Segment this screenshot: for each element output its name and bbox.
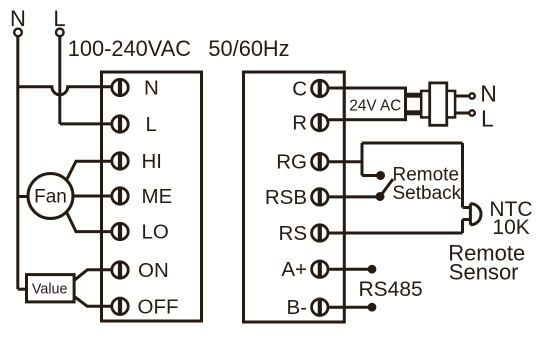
terminal TB1-HI — [112, 152, 128, 171]
svg-text:100-240VAC: 100-240VAC — [68, 36, 191, 61]
svg-text:B-: B- — [287, 296, 308, 319]
terminal TB2-R — [312, 113, 328, 132]
terminal N input circle — [14, 29, 22, 37]
svg-text:LO: LO — [142, 221, 169, 244]
mains N pin circle — [469, 93, 474, 98]
wire L vertical drop — [58, 37, 61, 124]
wire N vertical drop — [16, 37, 19, 87]
wire RG vertical branch — [361, 143, 364, 176]
plug right bracket — [447, 91, 455, 118]
wire value to ON — [74, 270, 111, 281]
svg-text:N: N — [144, 77, 159, 100]
sensor RT1 thermistor bulb — [470, 204, 481, 225]
svg-text:OFF: OFF — [138, 295, 179, 318]
wire stub to fan — [18, 195, 29, 198]
wire plug to L pin — [455, 112, 469, 115]
wire sensor bottom prong — [463, 218, 471, 221]
terminal TB1-L — [112, 115, 128, 134]
svg-text:L: L — [481, 106, 494, 132]
switch S1 fixed contact dot — [376, 171, 385, 180]
terminal TB2-C — [312, 79, 328, 98]
wire B- stub — [329, 306, 370, 309]
wire fan to ME — [73, 195, 111, 198]
switch S1 lever — [380, 179, 393, 197]
terminal TB1-N — [112, 78, 128, 97]
node B- dot — [368, 303, 377, 312]
wire into value box — [18, 288, 27, 291]
wire value to OFF — [74, 296, 111, 306]
svg-text:RG: RG — [276, 151, 307, 174]
terminal TB1-ME — [112, 187, 128, 206]
wire N vertical continuation to fan and value — [16, 87, 19, 289]
right terminal block TB2 — [244, 72, 345, 322]
wire fan to LO — [66, 211, 111, 232]
wire to switch fixed contact — [362, 174, 378, 177]
fan M1 circle — [28, 174, 73, 219]
terminal TB1-OFF — [112, 297, 128, 316]
terminal TB2-RSB — [312, 188, 328, 207]
wire 24VAC box to plug bottom — [406, 110, 422, 115]
svg-text:Fan: Fan — [34, 187, 67, 208]
svg-text:L: L — [146, 113, 157, 136]
wire N horizontal with hop over L — [18, 87, 111, 95]
wire sensor top prong — [463, 206, 471, 209]
value box — [27, 275, 75, 302]
wire L horizontal to terminal — [60, 122, 111, 125]
svg-text:RSB: RSB — [265, 186, 307, 209]
terminal TB2-B- — [312, 298, 328, 317]
wire R to 24VAC box — [326, 118, 346, 121]
svg-text:R: R — [292, 112, 307, 135]
terminal TB2-RG — [312, 152, 328, 171]
svg-text:A+: A+ — [281, 258, 307, 281]
terminal TB1-LO — [112, 222, 128, 241]
wire RG horizontal — [329, 160, 362, 163]
terminal TB1-ON — [112, 261, 128, 280]
transformer 24VAC box — [344, 88, 405, 120]
wire plug to N pin — [455, 95, 469, 98]
svg-text:ON: ON — [138, 259, 169, 282]
wire RSB to switch — [329, 195, 378, 198]
svg-text:HI: HI — [142, 150, 163, 173]
svg-text:10K: 10K — [492, 216, 529, 239]
wire RS riser — [461, 220, 464, 234]
svg-text:24V AC: 24V AC — [349, 98, 401, 115]
plug left bracket — [421, 91, 430, 118]
svg-text:RS: RS — [279, 222, 307, 245]
wire 24VAC box to plug top — [406, 93, 422, 98]
wire A+ stub — [329, 268, 370, 271]
node A+ dot — [368, 265, 377, 274]
svg-text:N: N — [480, 80, 497, 106]
mains L pin circle — [469, 110, 474, 115]
svg-text:50/60Hz: 50/60Hz — [208, 36, 289, 61]
wire RS horizontal — [329, 232, 462, 235]
svg-text:Setback: Setback — [393, 183, 462, 204]
plug core — [430, 83, 447, 125]
wire sensor drop — [461, 143, 464, 208]
left terminal block TB1 — [102, 72, 202, 321]
svg-text:RS485: RS485 — [359, 278, 423, 301]
svg-text:ME: ME — [142, 185, 173, 208]
svg-text:C: C — [292, 78, 307, 101]
wire top run to sensor — [362, 142, 463, 145]
wire fan to HI — [66, 161, 111, 181]
svg-text:Value: Value — [32, 281, 68, 297]
terminal L input circle — [56, 29, 64, 37]
svg-text:Sensor: Sensor — [449, 260, 519, 285]
switch S1 moving contact dot — [376, 192, 385, 201]
terminal TB2-RS — [312, 224, 328, 243]
wire C to 24VAC box — [327, 87, 346, 90]
terminal TB2-A+ — [312, 260, 328, 279]
